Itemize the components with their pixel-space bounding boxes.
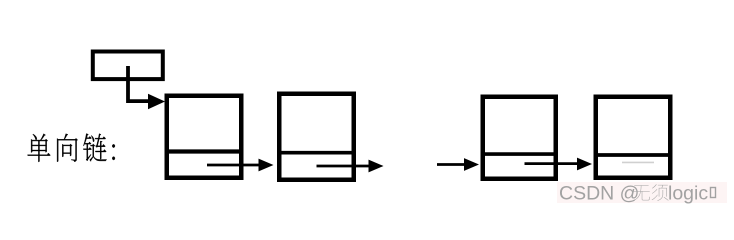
node 3 box xyxy=(483,97,556,179)
node 4 box xyxy=(596,97,671,178)
node 1 box xyxy=(167,96,242,178)
watermark pink band xyxy=(557,182,727,203)
node 2 box xyxy=(279,94,354,180)
watermark text "CSDN @无须logic" xyxy=(559,183,708,205)
label text "单向链:" xyxy=(28,134,115,162)
head pointer arrow (down then right into node 1) xyxy=(128,66,165,109)
head pointer box xyxy=(93,52,163,80)
svg-text:logic: logic xyxy=(668,183,708,205)
arrow from node 2 pointing right (omitted nodes) xyxy=(317,160,384,173)
node 1 divider xyxy=(165,149,244,153)
arrow from node 1 to node 2 xyxy=(207,159,274,172)
watermark tofu glyph xyxy=(711,188,716,198)
node 4 divider xyxy=(594,153,673,157)
node 3 divider xyxy=(481,152,559,156)
node 2 divider xyxy=(277,151,356,155)
node 4 faint pointer line xyxy=(622,161,654,163)
arrow from node 3 to node 4 xyxy=(525,158,593,171)
arrow into node 3 from omitted nodes xyxy=(437,158,479,171)
svg-text:CSDN @: CSDN @ xyxy=(559,183,639,205)
